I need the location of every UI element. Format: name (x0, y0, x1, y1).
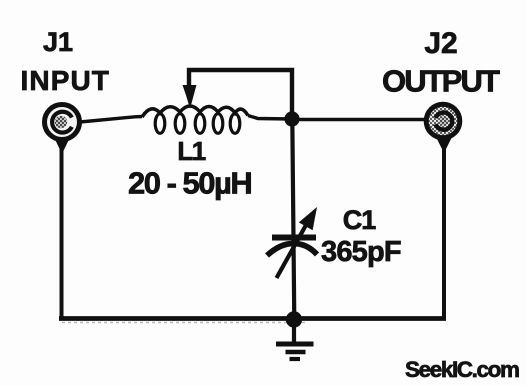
svg-text:OUTPUT: OUTPUT (382, 64, 500, 99)
capacitor C1 bottom curved plate (267, 244, 317, 256)
inductor L1 loop 2 (175, 114, 185, 134)
ground bar 1 (276, 342, 314, 347)
wire: J1 to inductor (80, 117, 142, 123)
wire: left vertical from J1 to bottom (60, 140, 64, 320)
inductor L1 loop 1 (155, 114, 165, 134)
tap arrow onto L1 (183, 86, 196, 108)
capacitor C1 top plate (272, 235, 316, 241)
svg-text:J2: J2 (424, 27, 457, 60)
wire: junction to J2 (292, 118, 426, 121)
connector J1 outer ring (45, 105, 80, 140)
inductor L1 loop 4 (213, 114, 223, 134)
connector J2 teardrop (433, 131, 455, 153)
wire: capacitor branch vertical (292, 119, 294, 320)
svg-text:20 - 50µH: 20 - 50µH (128, 166, 251, 201)
capacitor C1 adjust arrow (277, 225, 307, 278)
wire: bottom horizontal (59, 316, 446, 321)
svg-text:INPUT: INPUT (21, 65, 111, 96)
connector J1 center dot (55, 116, 67, 128)
wire: right vertical from J2 to bottom (442, 140, 446, 320)
junction node dot top (284, 111, 299, 126)
connector J1 inner C ring (52, 112, 72, 133)
inductor L1 loop 3 (195, 114, 205, 134)
connector J2 inner ring (436, 112, 453, 129)
wire: tap top horizontal (189, 70, 292, 119)
svg-text:C1: C1 (343, 205, 376, 235)
junction node dot bottom (286, 311, 302, 327)
connector J2 outer ring (426, 104, 460, 138)
connector J1 teardrop (51, 131, 73, 154)
ground bar 3 (290, 357, 301, 361)
wire: inductor to junction node (248, 116, 292, 120)
svg-text:J1: J1 (43, 27, 73, 57)
svg-text:L1: L1 (177, 136, 205, 166)
svg-text:365pF: 365pF (321, 236, 401, 268)
inductor L1 loop 5 (230, 114, 240, 134)
svg-text:SeekIC.com: SeekIC.com (405, 357, 519, 382)
connector J2 center dot (439, 116, 448, 125)
inductor L1 coil (142, 106, 248, 117)
ground stub (292, 320, 296, 342)
ground bar 2 (286, 350, 306, 355)
wire: scan shadow dashes under bottom wire (62, 322, 305, 324)
